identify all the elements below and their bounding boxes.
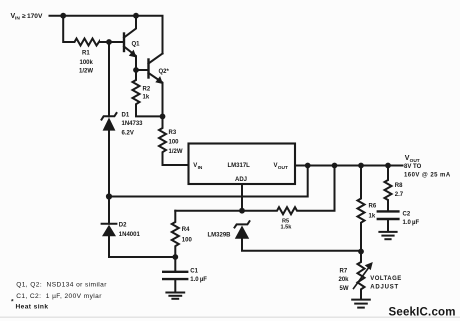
svg-text:R8: R8 [395,183,403,189]
svg-text:VOLTAGE: VOLTAGE [370,276,402,282]
svg-text:R2: R2 [143,87,151,93]
svg-text:IN: IN [15,16,20,22]
svg-text:100: 100 [182,238,193,244]
svg-text:160V @ 25 mA: 160V @ 25 mA [404,173,451,179]
svg-text:8V TO: 8V TO [404,164,422,170]
svg-text:C1, C2: 1 µF, 200V mylar: C1, C2: 1 µF, 200V mylar [16,293,102,300]
svg-text:*: * [11,299,14,306]
svg-text:1.5k: 1.5k [281,225,293,231]
svg-text:1N4001: 1N4001 [119,232,141,238]
svg-text:1/2W: 1/2W [79,69,93,75]
svg-text:R1: R1 [82,51,90,57]
svg-text:LM329B: LM329B [208,233,232,239]
svg-text:D2: D2 [119,223,127,229]
svg-text:6.2V: 6.2V [122,131,134,137]
svg-text:Q1, Q2: NSD134 or similar: Q1, Q2: NSD134 or similar [16,281,107,288]
svg-text:OUT: OUT [278,165,288,171]
svg-text:5W: 5W [340,286,349,292]
svg-text:C2: C2 [403,212,411,218]
svg-text:ADJUST: ADJUST [370,284,399,290]
svg-text:1k: 1k [143,95,150,101]
svg-text:1/2W: 1/2W [169,149,183,155]
svg-text:R6: R6 [369,204,377,210]
svg-text:100: 100 [169,139,180,145]
svg-text:1.0 µF: 1.0 µF [403,220,420,226]
svg-text:Heat sink: Heat sink [16,303,49,310]
svg-text:LM317L: LM317L [228,163,251,169]
svg-text:20k: 20k [339,277,350,283]
svg-text:R3: R3 [169,130,177,136]
svg-text:R7: R7 [340,268,348,274]
svg-text:IN: IN [198,165,203,171]
svg-text:≥ 170V: ≥ 170V [22,13,43,20]
svg-text:ADJ: ADJ [235,177,247,183]
svg-text:2.7: 2.7 [395,192,404,198]
svg-text:100k: 100k [80,60,94,66]
svg-text:Q1: Q1 [132,42,141,48]
svg-text:R5: R5 [282,218,289,224]
svg-text:1N4733: 1N4733 [122,121,144,127]
svg-text:C1: C1 [190,269,198,275]
svg-text:1k: 1k [369,213,376,219]
svg-text:R4: R4 [182,227,190,233]
svg-text:D1: D1 [122,112,130,118]
svg-text:Q2*: Q2* [159,69,170,75]
svg-text:1.0 µF: 1.0 µF [190,277,207,283]
